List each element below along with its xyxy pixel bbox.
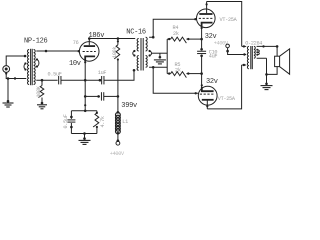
resistor 100k plate load <box>117 37 120 40</box>
resistor 100K grid leak <box>38 86 43 98</box>
76 cathode <box>85 56 95 61</box>
svg-text:NC-16: NC-16 <box>126 29 146 37</box>
NC-16 core <box>140 38 142 71</box>
ground bias network <box>84 134 86 139</box>
wire NC-16 secondary bottom <box>149 66 167 68</box>
NP-126 core <box>30 49 32 85</box>
wire B+ bus 399v <box>117 59 119 113</box>
svg-text:76: 76 <box>73 40 79 46</box>
VT-25A bottom cathode <box>202 87 214 91</box>
wire NP-126 secondary top to 76 grid <box>36 50 79 52</box>
VT-25A top plate <box>199 13 212 15</box>
transformer NP-126 primary winding <box>27 50 29 85</box>
svg-text:+400V: +400V <box>110 151 125 157</box>
svg-text:100K: 100K <box>36 85 42 97</box>
input jack J1 <box>3 66 10 73</box>
svg-text:0.5uF: 0.5uF <box>63 114 69 128</box>
bias network bottom wire <box>71 133 97 135</box>
tube 76 envelope <box>79 42 99 62</box>
ground NC-16 CT <box>154 59 166 61</box>
wire grid return bus <box>166 39 168 74</box>
svg-text:1uF: 1uF <box>98 70 107 76</box>
wire cap to cathode junction <box>61 79 100 81</box>
svg-text:4uF: 4uF <box>209 54 218 60</box>
wire 1uF to NC-16 primary bottom riser <box>104 70 135 80</box>
terminal +400V <box>116 141 120 145</box>
wire bottom plate riser <box>207 65 241 109</box>
wire secondary bottom to VT-25A grid (bottom) <box>153 67 199 93</box>
svg-text:32v: 32v <box>206 78 218 86</box>
wire NP-126 secondary bottom rail <box>36 79 57 81</box>
O-2264 primary winding <box>247 46 249 68</box>
resistor 4.7k cathode bias <box>96 111 98 113</box>
capacitor 0.5uF cathode bypass <box>70 111 72 119</box>
NP-126 primary series jumper <box>24 64 26 70</box>
O-2264 core <box>250 46 252 69</box>
tube VT-25A top envelope <box>197 9 216 28</box>
NP-126 secondary winding <box>34 50 36 85</box>
capacitor cathode to B+ rail <box>100 92 102 100</box>
VT-25A bottom grid <box>200 93 214 95</box>
bias network top wire <box>71 110 97 112</box>
ground speaker return <box>261 85 273 87</box>
wire cathode to C bypass rail <box>85 95 100 97</box>
NC-16 secondary winding <box>146 37 148 51</box>
VT-25A bottom plate <box>202 99 214 101</box>
wire top plate riser <box>207 2 242 47</box>
svg-text:O-2264: O-2264 <box>245 41 262 47</box>
svg-text:VT-25A: VT-25A <box>218 96 236 102</box>
svg-text:VT-25A: VT-25A <box>220 17 238 23</box>
speaker <box>275 56 280 66</box>
76 grid <box>83 51 96 53</box>
VT-25A top cathode <box>202 23 213 27</box>
wire OPT secondary bottom to ground <box>257 58 267 84</box>
O-2264 secondary tap jumpers <box>257 50 260 53</box>
svg-text:NP-126: NP-126 <box>24 38 48 46</box>
inductor L1 choke <box>117 111 120 114</box>
svg-text:L1: L1 <box>122 119 128 125</box>
wire cathode to bias network <box>84 96 86 110</box>
wire ground branch <box>7 79 9 102</box>
NP-126 secondary series jumper <box>36 60 39 67</box>
svg-text:2k: 2k <box>173 31 179 37</box>
wire top cathode down to bus <box>201 23 203 50</box>
wire NC-16 secondary top to VT-25A grid (top) <box>149 19 197 37</box>
wire NC-16 center tap to ground <box>152 52 168 54</box>
wire 76 plate to NC-16 primary top <box>89 38 135 40</box>
76 plate <box>84 45 95 47</box>
svg-text:399v: 399v <box>121 102 137 110</box>
svg-text:+400V: +400V <box>214 40 229 46</box>
NC-16 secondary jumper <box>149 51 151 56</box>
wire OPT primary top lead <box>242 45 247 47</box>
wire jack sleeve to NP-126 primary bottom <box>6 72 26 78</box>
wire 76 cathode down <box>84 56 86 96</box>
wire speaker bottom <box>267 67 278 75</box>
O-2264 secondary winding <box>254 46 255 58</box>
NC-16 primary jumper <box>133 51 135 56</box>
wire OPT secondary top to speaker <box>257 46 278 56</box>
svg-text:100k: 100k <box>112 47 118 58</box>
VT-25A top grid <box>199 17 213 19</box>
ground secondary <box>37 104 47 106</box>
capacitor C10 4uF <box>200 48 203 51</box>
NC-16 primary winding <box>137 39 139 51</box>
wire jack hot to NP-126 primary top <box>6 56 26 66</box>
svg-text:10v: 10v <box>69 60 81 68</box>
tube VT-25A bottom envelope <box>198 86 217 105</box>
wire OPT primary bottom lead <box>242 64 247 66</box>
svg-text:4.7k: 4.7k <box>100 116 106 127</box>
ground input <box>3 102 14 104</box>
svg-text:0.5uF: 0.5uF <box>48 72 62 78</box>
